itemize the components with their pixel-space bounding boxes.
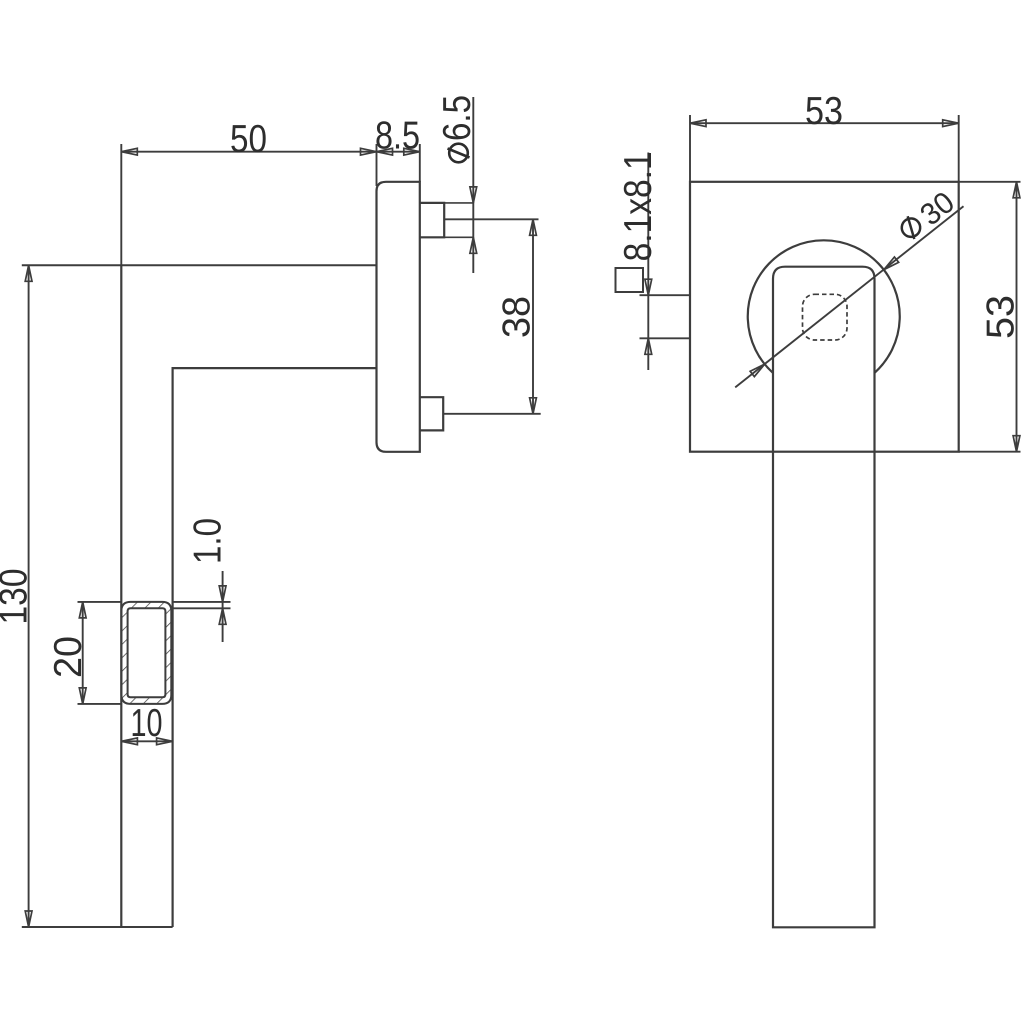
svg-text:53: 53	[805, 90, 843, 133]
svg-text:50: 50	[230, 118, 267, 161]
svg-text:1.0: 1.0	[187, 518, 230, 564]
svg-text:8.5: 8.5	[375, 115, 420, 158]
svg-text:53: 53	[980, 295, 1023, 339]
svg-text:6.5: 6.5	[436, 95, 479, 141]
svg-text:8.1x8.1: 8.1x8.1	[617, 151, 660, 261]
svg-text:130: 130	[0, 569, 36, 625]
svg-text:38: 38	[496, 296, 539, 338]
svg-text:10: 10	[131, 702, 163, 745]
svg-text:20: 20	[47, 636, 90, 678]
